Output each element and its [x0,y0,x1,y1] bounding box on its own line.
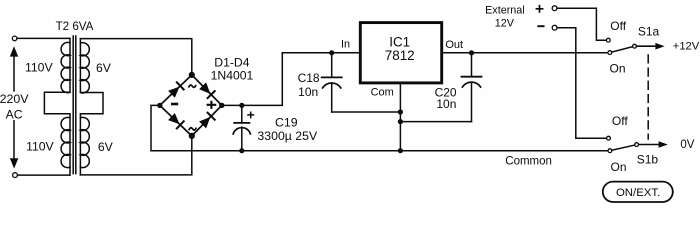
svg-text:In: In [341,38,350,50]
wire mains top to primary [17,37,70,39]
arrow 0V output [659,141,668,148]
svg-text:10n: 10n [298,85,318,99]
transformer T2 secondary winding [80,39,103,175]
diode D top-left [168,82,184,98]
bridge minus mark [172,103,177,106]
label ~ top [189,85,196,88]
junction Com / common rail [398,148,403,153]
svg-text:110V: 110V [26,140,54,154]
switch S1a Off contact [606,38,610,42]
switch S1b On contact [608,149,612,153]
node mains terminal top [12,36,17,41]
junction Com / C20 rail [398,119,403,124]
diode D bottom-right [199,113,215,129]
svg-text:On: On [609,62,625,76]
diode D bottom-left [168,113,184,129]
junction bridge top [189,72,195,78]
wire C20 bottom to IC Com [400,121,471,123]
external minus mark [538,25,543,27]
wire secondary top to bridge [80,39,192,75]
svg-text:7812: 7812 [385,48,415,63]
node external plus terminal [552,6,557,11]
wire S1b pole to 0V arrow [639,144,659,146]
svg-text:220V: 220V [0,92,29,106]
switch S1b arm [612,145,635,150]
svg-text:S1b: S1b [637,153,659,167]
ON/EXT. pill box [603,182,673,202]
external plus mark [536,6,542,12]
bridge rectifier D1-D4 diamond [160,75,222,136]
wire C18 bottom to IC Com [332,111,401,113]
svg-text:S1a: S1a [638,24,660,38]
svg-text:T2 6VA: T2 6VA [56,20,94,33]
node external minus terminal [552,25,557,30]
svg-text:6V: 6V [98,140,114,154]
transformer core [73,36,76,174]
wire S1a pole to +12V arrow [637,45,656,47]
junction bridge right [219,103,224,108]
switch S1a On contact [608,51,612,55]
switch S1b pole [635,143,639,147]
label ~ bottom [189,128,197,131]
wire minus rail: bridge left down and right (Common rail) [151,105,608,150]
svg-text:Com: Com [371,87,394,99]
junction C19 bottom [239,148,244,153]
svg-text:D1-D4: D1-D4 [214,55,249,69]
wire external minus to S1b Off [557,28,606,139]
svg-text:1N4001: 1N4001 [211,69,254,83]
mains voltage arrow down [10,121,18,169]
svg-text:Common: Common [505,156,552,168]
svg-text:6V: 6V [96,61,112,75]
capacitor C18 [322,53,342,112]
junction C19 top [239,103,244,108]
svg-text:110V: 110V [25,61,53,75]
junction bridge bottom [189,133,195,139]
svg-text:AC: AC [6,108,23,122]
capacitor C19 [233,105,253,150]
wire external plus to S1a Off [557,8,606,40]
junction C20 top [469,50,474,55]
dashed link S1a-S1b [647,55,649,139]
wire secondary bottom to bridge [80,136,192,175]
junction C18 top [329,50,334,55]
svg-text:Off: Off [612,114,628,128]
svg-text:C19: C19 [275,115,298,129]
svg-text:+12V: +12V [673,40,700,52]
switch S1a arm [612,47,633,52]
mains voltage arrow up [10,46,18,91]
svg-text:C18: C18 [298,71,320,85]
junction bridge left [157,103,162,108]
svg-text:12V: 12V [495,18,515,30]
svg-text:10n: 10n [436,97,456,111]
svg-text:Out: Out [445,39,463,51]
svg-text:3300µ 25V: 3300µ 25V [257,129,318,143]
svg-text:Off: Off [610,19,626,33]
wire plus rail: bridge right to IC In [222,53,360,106]
arrow +12V output [655,43,664,50]
svg-text:On: On [610,160,626,174]
switch S1b Off contact [607,136,611,140]
junction Com / C18 rail [398,109,403,114]
capacitor C20 [462,53,482,122]
svg-text:External: External [485,5,525,17]
switch S1a pole [633,44,637,48]
diode D top-right [199,82,215,98]
IC1 7812 regulator box [360,23,441,83]
svg-text:0V: 0V [680,139,694,151]
bridge plus mark [208,102,216,108]
wire mains bottom to primary [18,174,70,176]
svg-text:ON/EXT.: ON/EXT. [616,187,660,199]
wire IC Com down to common rail [399,83,401,151]
wire IC Out rail to switch S1a [442,52,608,54]
node mains terminal bottom [13,173,18,178]
transformer T2 primary winding [44,38,70,175]
